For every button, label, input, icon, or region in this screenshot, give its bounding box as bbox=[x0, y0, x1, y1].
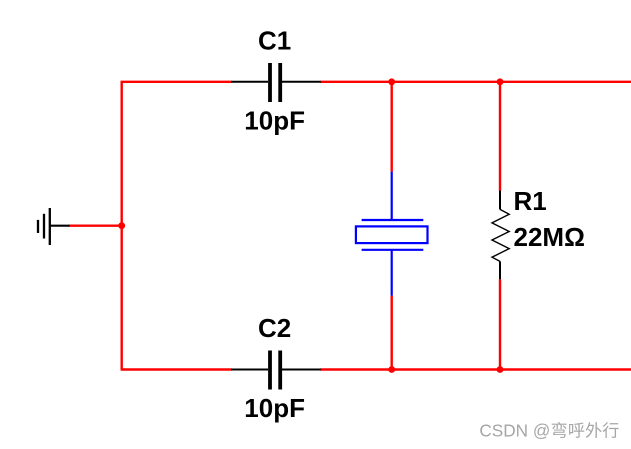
junction: crystal top bbox=[388, 78, 395, 85]
wire: top net, left segment (corner to C1 left lead) bbox=[122, 82, 232, 371]
label R1 bbox=[514, 186, 547, 216]
wire: bottom net, left segment (corner to C2 left lead) bbox=[122, 368, 232, 370]
svg-text:22MΩ: 22MΩ bbox=[514, 222, 585, 252]
wire: resistor top lead (red) bbox=[499, 82, 501, 191]
junction: ground to left wire bbox=[118, 222, 125, 229]
svg-text:C1: C1 bbox=[258, 25, 291, 55]
svg-text:CSDN @: CSDN @ bbox=[479, 421, 550, 441]
svg-text:C2: C2 bbox=[258, 313, 291, 343]
value 22MΩ (R1) bbox=[514, 222, 585, 252]
svg-text:10pF: 10pF bbox=[244, 393, 305, 423]
capacitor C1 bbox=[231, 63, 321, 102]
crystal bbox=[356, 172, 428, 296]
value 10pF (C1) bbox=[244, 105, 305, 135]
junction: resistor top bbox=[497, 78, 504, 85]
label C1 bbox=[258, 25, 291, 55]
resistor R1 bbox=[492, 191, 509, 280]
watermark CSDN @弯呼外行 bbox=[479, 421, 618, 441]
wire: crystal bottom lead (red) bbox=[391, 296, 393, 370]
wire: top net, right segment (C1 right lead to right edge) bbox=[320, 81, 631, 83]
svg-text:10pF: 10pF bbox=[244, 105, 305, 135]
junction: crystal bottom bbox=[388, 366, 395, 373]
wire: ground stub to left vertical wire bbox=[69, 224, 123, 226]
junction: resistor bottom bbox=[497, 366, 504, 373]
capacitor C2 bbox=[231, 351, 321, 390]
label C2 bbox=[258, 313, 291, 343]
wire: crystal top lead (red) bbox=[391, 82, 393, 172]
wire: bottom net, right segment (C2 right lead to right edge) bbox=[320, 368, 631, 370]
svg-text:R1: R1 bbox=[514, 186, 547, 216]
ground bbox=[38, 208, 70, 245]
wire: resistor bottom lead (red) bbox=[499, 279, 501, 369]
value 10pF (C2) bbox=[244, 393, 305, 423]
